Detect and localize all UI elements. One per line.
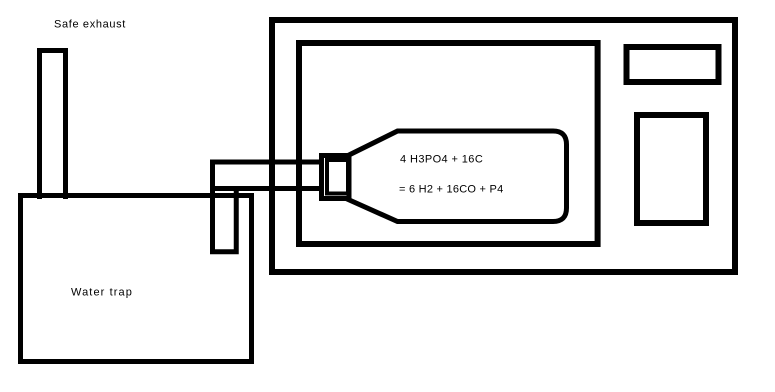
connecting tube top line: [210, 160, 324, 165]
flask body: [346, 131, 567, 222]
microwave outer body: [272, 20, 735, 272]
exhaust pipe: [40, 51, 66, 200]
flask neck joint inner: [327, 160, 348, 194]
water trap box: [21, 196, 252, 362]
microwave cavity window: [299, 43, 598, 244]
svg-text:= 6 H2 + 16CO + P4: = 6 H2 + 16CO + P4: [399, 184, 503, 196]
svg-text:4 H3PO4 + 16C: 4 H3PO4 + 16C: [400, 154, 483, 166]
svg-text:Water trap: Water trap: [71, 287, 133, 299]
display rectangle: [627, 47, 719, 82]
down pipe into trap: [213, 160, 237, 252]
flask neck joint outer: [322, 156, 350, 199]
connecting tube bottom line: [210, 186, 324, 191]
svg-text:Safe exhaust: Safe exhaust: [54, 19, 126, 31]
button panel rectangle: [637, 115, 706, 223]
